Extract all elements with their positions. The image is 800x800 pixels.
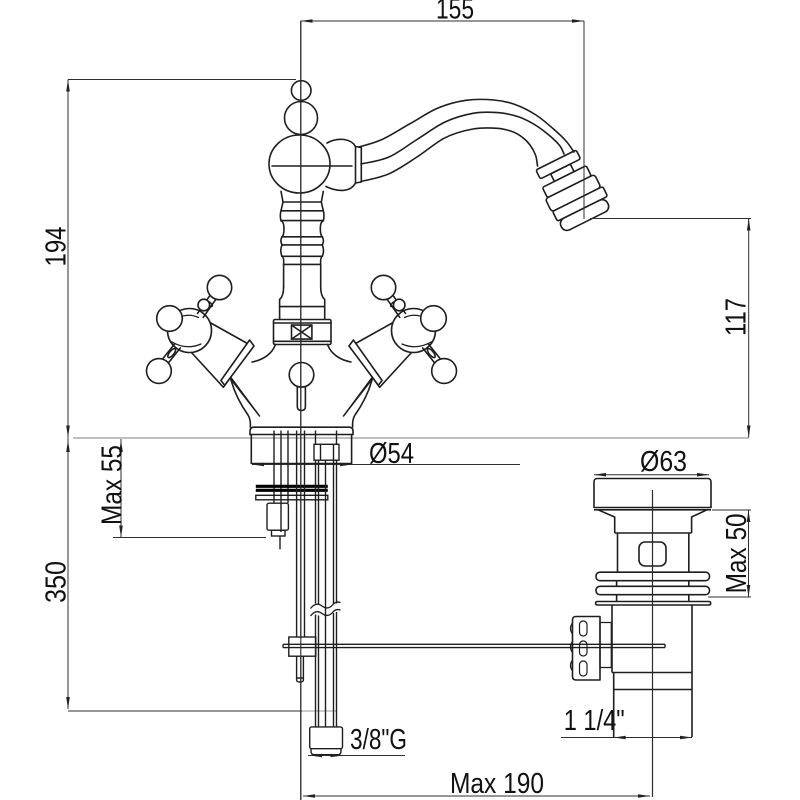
3/8G nut — [310, 727, 343, 749]
clamp — [289, 637, 316, 656]
tailpiece — [613, 673, 615, 738]
dim line Max50 vertical — [748, 510, 750, 597]
upper body — [617, 533, 619, 572]
centerline drain — [652, 490, 654, 797]
spout bottom curve — [361, 128, 538, 182]
rod below clamp — [296, 656, 298, 678]
pop-up rod vertical — [296, 431, 298, 638]
metal washer — [256, 495, 328, 500]
ring 2 — [596, 586, 710, 594]
svg-text:Ø54: Ø54 — [369, 438, 414, 470]
hidden arm lines — [226, 373, 260, 416]
svg-text:350: 350 — [41, 561, 73, 603]
drain cap — [594, 479, 711, 508]
svg-text:194: 194 — [41, 227, 73, 267]
dim line 1 1/4 — [561, 737, 692, 739]
equator line through ball and joint — [272, 165, 352, 167]
bonnet band — [221, 340, 254, 385]
finial ball top — [291, 81, 311, 101]
horizontal pop-up rod to drain — [283, 643, 665, 645]
left ball collar — [172, 315, 182, 326]
main body ball — [269, 135, 330, 193]
ext lines Max50 — [712, 509, 751, 511]
pop-up knob ball — [289, 363, 314, 388]
knurled nut left — [573, 617, 601, 681]
svg-text:1 1/4": 1 1/4" — [564, 705, 625, 737]
valve block with X — [274, 320, 332, 345]
dim line 3/8G — [308, 755, 405, 757]
mounting surface line — [73, 437, 749, 439]
ring 1 — [596, 572, 710, 581]
joint face ring — [356, 147, 362, 184]
lower body — [611, 605, 613, 673]
overflow hole — [639, 542, 666, 566]
dim line D54 — [252, 464, 520, 466]
dim line 117 vertical — [748, 219, 750, 438]
svg-text:Ø63: Ø63 — [640, 446, 687, 478]
centerline faucet — [300, 21, 302, 800]
svg-text:Max 50: Max 50 — [721, 513, 753, 593]
svg-text:Max 190: Max 190 — [450, 768, 544, 800]
ring 3 thin — [596, 602, 711, 606]
cone valve stem — [191, 322, 253, 387]
hidden 4th arm — [212, 352, 260, 416]
dim line D63 — [594, 474, 709, 476]
base flange body — [251, 435, 351, 464]
spout middle curve — [361, 112, 564, 164]
bottom arm neck — [163, 344, 175, 359]
extension line 350 bottom — [68, 710, 302, 712]
dim line 155 — [301, 20, 585, 22]
supply pipe — [315, 431, 317, 445]
pipe break symbol — [311, 602, 341, 608]
cap-to-body transition — [598, 510, 707, 533]
svg-text:155: 155 — [436, 0, 474, 26]
spout top curve — [359, 99, 574, 152]
svg-text:3/8"G: 3/8"G — [350, 724, 407, 756]
extension line 194 top — [68, 79, 296, 81]
rubber gasket (thick) — [256, 485, 328, 488]
spout joint barrel — [326, 139, 356, 190]
aerator on spout end — [532, 147, 614, 234]
dim line Max55 vertical — [120, 439, 122, 538]
bell sides — [231, 380, 250, 427]
dim line Max190 — [303, 795, 650, 797]
base flange lip — [250, 427, 353, 434]
svg-text:117: 117 — [721, 298, 753, 336]
body shoulders to bell — [252, 345, 276, 363]
top arm neck — [203, 300, 215, 318]
top ball — [207, 275, 231, 299]
dim line 194/350 vertical — [67, 80, 69, 710]
hub — [168, 309, 212, 353]
bottom ball — [147, 359, 172, 384]
finial ball — [198, 299, 210, 311]
pop-up knob stem — [297, 387, 305, 411]
left ball — [157, 306, 183, 332]
overlay: extension and center lines drawn over shapes — [584, 21, 751, 219]
threaded stud — [273, 431, 275, 504]
svg-text:Max 55: Max 55 — [97, 445, 129, 525]
extension line Max55 bottom — [113, 537, 266, 539]
second ball — [285, 102, 318, 135]
column under ball — [281, 191, 283, 210]
body between rings — [616, 581, 618, 587]
mounting nut — [267, 503, 288, 530]
extension line 117 top — [590, 218, 751, 220]
extension line right of 155 down to spout outlet — [583, 21, 585, 219]
